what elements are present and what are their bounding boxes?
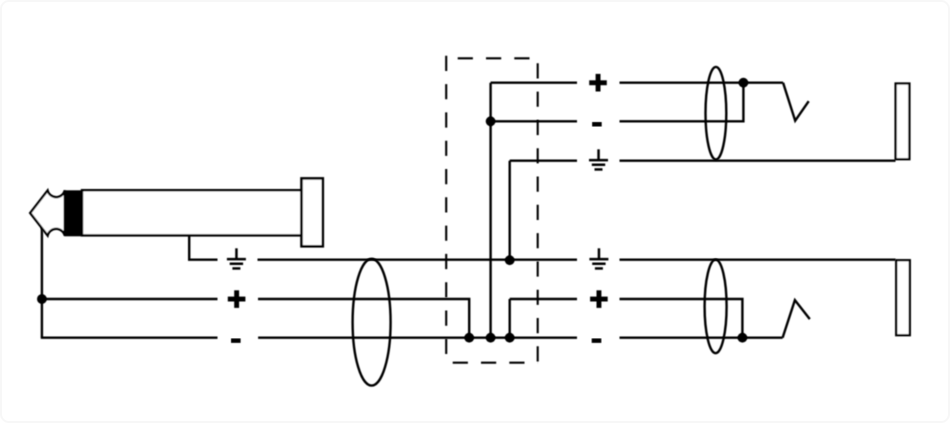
junction dot: riser v3 / minus bus (505, 333, 515, 343)
junction dot: riser v1 / minus bus (486, 333, 496, 343)
wire: minus row F right segment to bottom jack contact (620, 337, 783, 339)
wire: ground row D right segment to bottom jack body (620, 259, 896, 261)
cable shield ellipse, bottom-right cable (705, 260, 727, 354)
wire: ground drop from plug sleeve x=189.2 (189, 235, 217, 260)
jack socket body J1 (top right) (896, 84, 910, 160)
contact spring of bottom jack (783, 300, 810, 338)
wire: top group plus row A right of label to contact (620, 81, 784, 83)
wire: riser v2 x=509.7 ground C down to ground D dot (509, 161, 511, 261)
wire: top group minus row B right segment with stub up to plus dot (620, 83, 744, 122)
wire: minus row F left segment from corner to label gap (41, 337, 218, 339)
jack socket body J2 (bottom right) (896, 260, 910, 335)
junction box bottom edge (446, 362, 538, 364)
wire: plus row E left segment from tip-bus dot to label gap (42, 298, 218, 300)
junction dot: bottom jack minus/stub (738, 333, 748, 343)
wire: top group minus row B from riser dot (491, 120, 577, 122)
wire: plus row E segment from riser corner to label gap (510, 298, 577, 300)
wire: ground row C right segment to top jack body (620, 159, 896, 161)
plus label, top-right cable row A (589, 74, 607, 92)
ground symbol, top-right cable row C (589, 149, 608, 170)
wire: tip vertical drop (node TIP bus), x=41.9 from plug tip down to minus row (41, 222, 43, 338)
wire: top group ground row C from box riser corner (510, 159, 577, 161)
junction box (dashed outline) (446, 56, 538, 363)
plug P1 insulator band (64, 190, 82, 236)
wire: minus row F middle segment through shield and patch box (258, 337, 577, 339)
plus label, left cable (228, 290, 246, 308)
junction dot: plus drop / minus bus (464, 333, 474, 343)
junction dot: top jack plus/stub (739, 78, 749, 88)
wire: plus row E mid segment, turns down at x=469.2 into minus bus (258, 299, 469, 338)
junction box top edge (446, 57, 538, 59)
contact spring of top jack (783, 83, 809, 121)
plug P1 tip (30, 190, 65, 235)
ground symbol at plug cable (227, 248, 246, 269)
minus label, left cable (231, 338, 241, 343)
wire: plus row E right segment from box corner x=509.7 (509, 299, 511, 338)
cable shield ellipse, top-right cable (706, 67, 727, 160)
plug P1 sleeve body (82, 190, 302, 235)
minus label, bottom-right cable row F (592, 338, 602, 343)
junction dot: riser v1 / row B (486, 116, 496, 126)
plug P1 collar (302, 178, 323, 246)
junction dot: riser v2 / ground row D (505, 255, 515, 265)
junction box left edge (445, 56, 447, 363)
junction box right edge (537, 58, 539, 362)
junction dot: tip bus / plus row (37, 294, 47, 304)
cable shield ellipse, left cable (353, 259, 391, 386)
ground symbol, bottom-right cable row D (589, 248, 608, 269)
wire: top group plus row A from riser corner (491, 81, 577, 83)
wire: riser v1 x=490.6 rows A to F (489, 83, 491, 338)
wire: plus row E right of label to bottom jack stub (620, 299, 743, 338)
minus label, top-right cable row B (592, 122, 602, 127)
wire: ground row D mid segment to right label gap (258, 259, 578, 261)
plus label, bottom-right cable row E (590, 290, 608, 308)
